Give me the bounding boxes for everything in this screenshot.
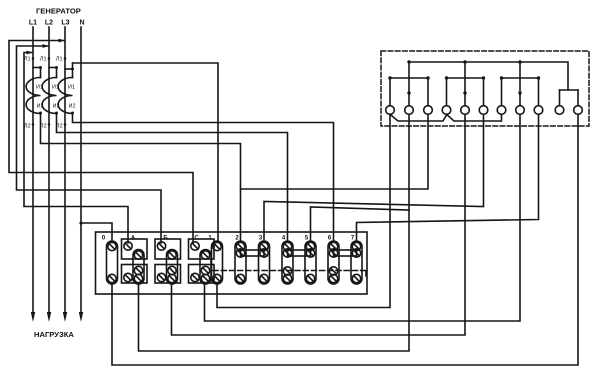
box current terminal 4 xyxy=(282,241,293,284)
box terminal 1 screws xyxy=(213,242,221,282)
meter terminal 6 xyxy=(479,78,488,114)
box voltage group B xyxy=(155,239,181,284)
box terminal 1 stadium xyxy=(212,241,223,284)
load arrow L2 xyxy=(47,312,51,322)
wire line L3 xyxy=(64,27,66,313)
svg-text:L2: L2 xyxy=(45,20,53,27)
test terminal box outline xyxy=(96,232,368,294)
wire box terminal 2 to meter terminal 3 xyxy=(241,114,429,189)
svg-text:Л1: Л1 xyxy=(56,57,63,63)
box voltage group C xyxy=(189,239,215,284)
current transformer T2 on L2 xyxy=(40,57,60,130)
wire box C bottom to meter terminal 8 xyxy=(205,114,521,321)
meter terminal 8 xyxy=(516,62,525,114)
box terminal 0 screws xyxy=(108,242,116,282)
meter voltage bracket terminals 4-6 xyxy=(447,77,484,79)
wire T3 secondary И2 to box terminal 6 xyxy=(73,113,334,242)
svg-text:N: N xyxy=(79,20,84,27)
dashed link line in box xyxy=(213,270,362,272)
meter current link 4-7 xyxy=(447,114,502,121)
wire T3 secondary И1 to box terminal 1 xyxy=(73,63,219,242)
wire box B bottom to meter terminal 5 xyxy=(172,114,466,335)
jumper bar terminals 4-5 xyxy=(288,250,311,256)
meter terminal 9 xyxy=(534,78,543,114)
svg-text:L1: L1 xyxy=(29,20,37,27)
meter terminal 7 xyxy=(497,78,506,114)
load arrow L3 xyxy=(63,312,67,322)
box current terminal 2 xyxy=(235,241,246,284)
meter terminal 1 xyxy=(386,78,395,114)
meter dashed enclosure xyxy=(381,51,589,126)
voltage tap wire L3 to box C (around left) xyxy=(9,41,193,244)
meter bracket terminals 10-11 xyxy=(560,89,579,91)
wire T1 secondary И2 to box terminal 2 xyxy=(41,113,241,242)
svg-text:НАГРУЗКА: НАГРУЗКА xyxy=(34,330,74,339)
load arrow N xyxy=(79,312,83,322)
box voltage group A xyxy=(122,239,148,284)
wire T2 secondary И2 to box terminal 4 xyxy=(57,113,288,242)
jumper bar terminals 6-7 xyxy=(334,250,357,256)
current transformer T3 on L3 xyxy=(56,57,76,130)
jumper bar terminals 2-3 xyxy=(241,250,265,256)
meter terminal 10 xyxy=(555,90,564,114)
meter voltage bracket terminals 1-3 xyxy=(390,77,428,79)
box current terminal 5 xyxy=(305,241,316,284)
svg-text:Л1: Л1 xyxy=(40,57,47,63)
svg-text:И1: И1 xyxy=(68,85,75,91)
meter terminal 3 xyxy=(424,78,433,114)
wire box terminal 7 to meter terminal 9 xyxy=(357,114,539,242)
meter voltage bus xyxy=(409,62,568,90)
meter voltage bracket terminals 7-9 xyxy=(502,77,539,79)
box current terminal 3 xyxy=(259,241,270,284)
meter terminal 5 xyxy=(461,62,470,114)
box current terminal 6 xyxy=(328,241,339,284)
wire box terminal 1 bottom to meter terminal 1 xyxy=(217,114,390,307)
svg-text:Л1: Л1 xyxy=(24,57,31,63)
wire box A bottom to meter terminal 2 xyxy=(139,114,410,351)
wire line L2 xyxy=(48,27,50,313)
wire box terminal 0 bottom to meter terminal 11 xyxy=(112,114,578,365)
current transformer T1 on L1 xyxy=(24,57,44,130)
wire N to box terminal 0 xyxy=(81,223,112,242)
meter terminal 4 xyxy=(442,78,451,114)
meter terminal 11 xyxy=(574,90,583,114)
svg-text:ГЕНЕРАТОР: ГЕНЕРАТОР xyxy=(36,7,81,16)
meter terminal 2 xyxy=(405,62,414,114)
svg-text:Л2: Л2 xyxy=(24,124,31,130)
box current terminal 7 xyxy=(351,241,362,284)
wire box terminal 5 to meter terminal 2 line xyxy=(311,207,410,242)
voltage tap wire L1 to box A (around left) xyxy=(24,53,128,244)
junction dots at CT stubs xyxy=(32,57,74,126)
meter current link 1-4 xyxy=(390,114,447,121)
load arrow L1 xyxy=(31,312,35,322)
wire line N xyxy=(80,27,82,313)
svg-text:L3: L3 xyxy=(61,20,69,27)
box terminal 0 stadium xyxy=(107,241,118,284)
svg-text:И2: И2 xyxy=(68,104,75,110)
voltage tap wire L2 to box B (around left) xyxy=(17,46,162,243)
wire box terminal 3 to meter terminal 6 xyxy=(264,114,484,242)
wire line L1 xyxy=(32,27,34,313)
